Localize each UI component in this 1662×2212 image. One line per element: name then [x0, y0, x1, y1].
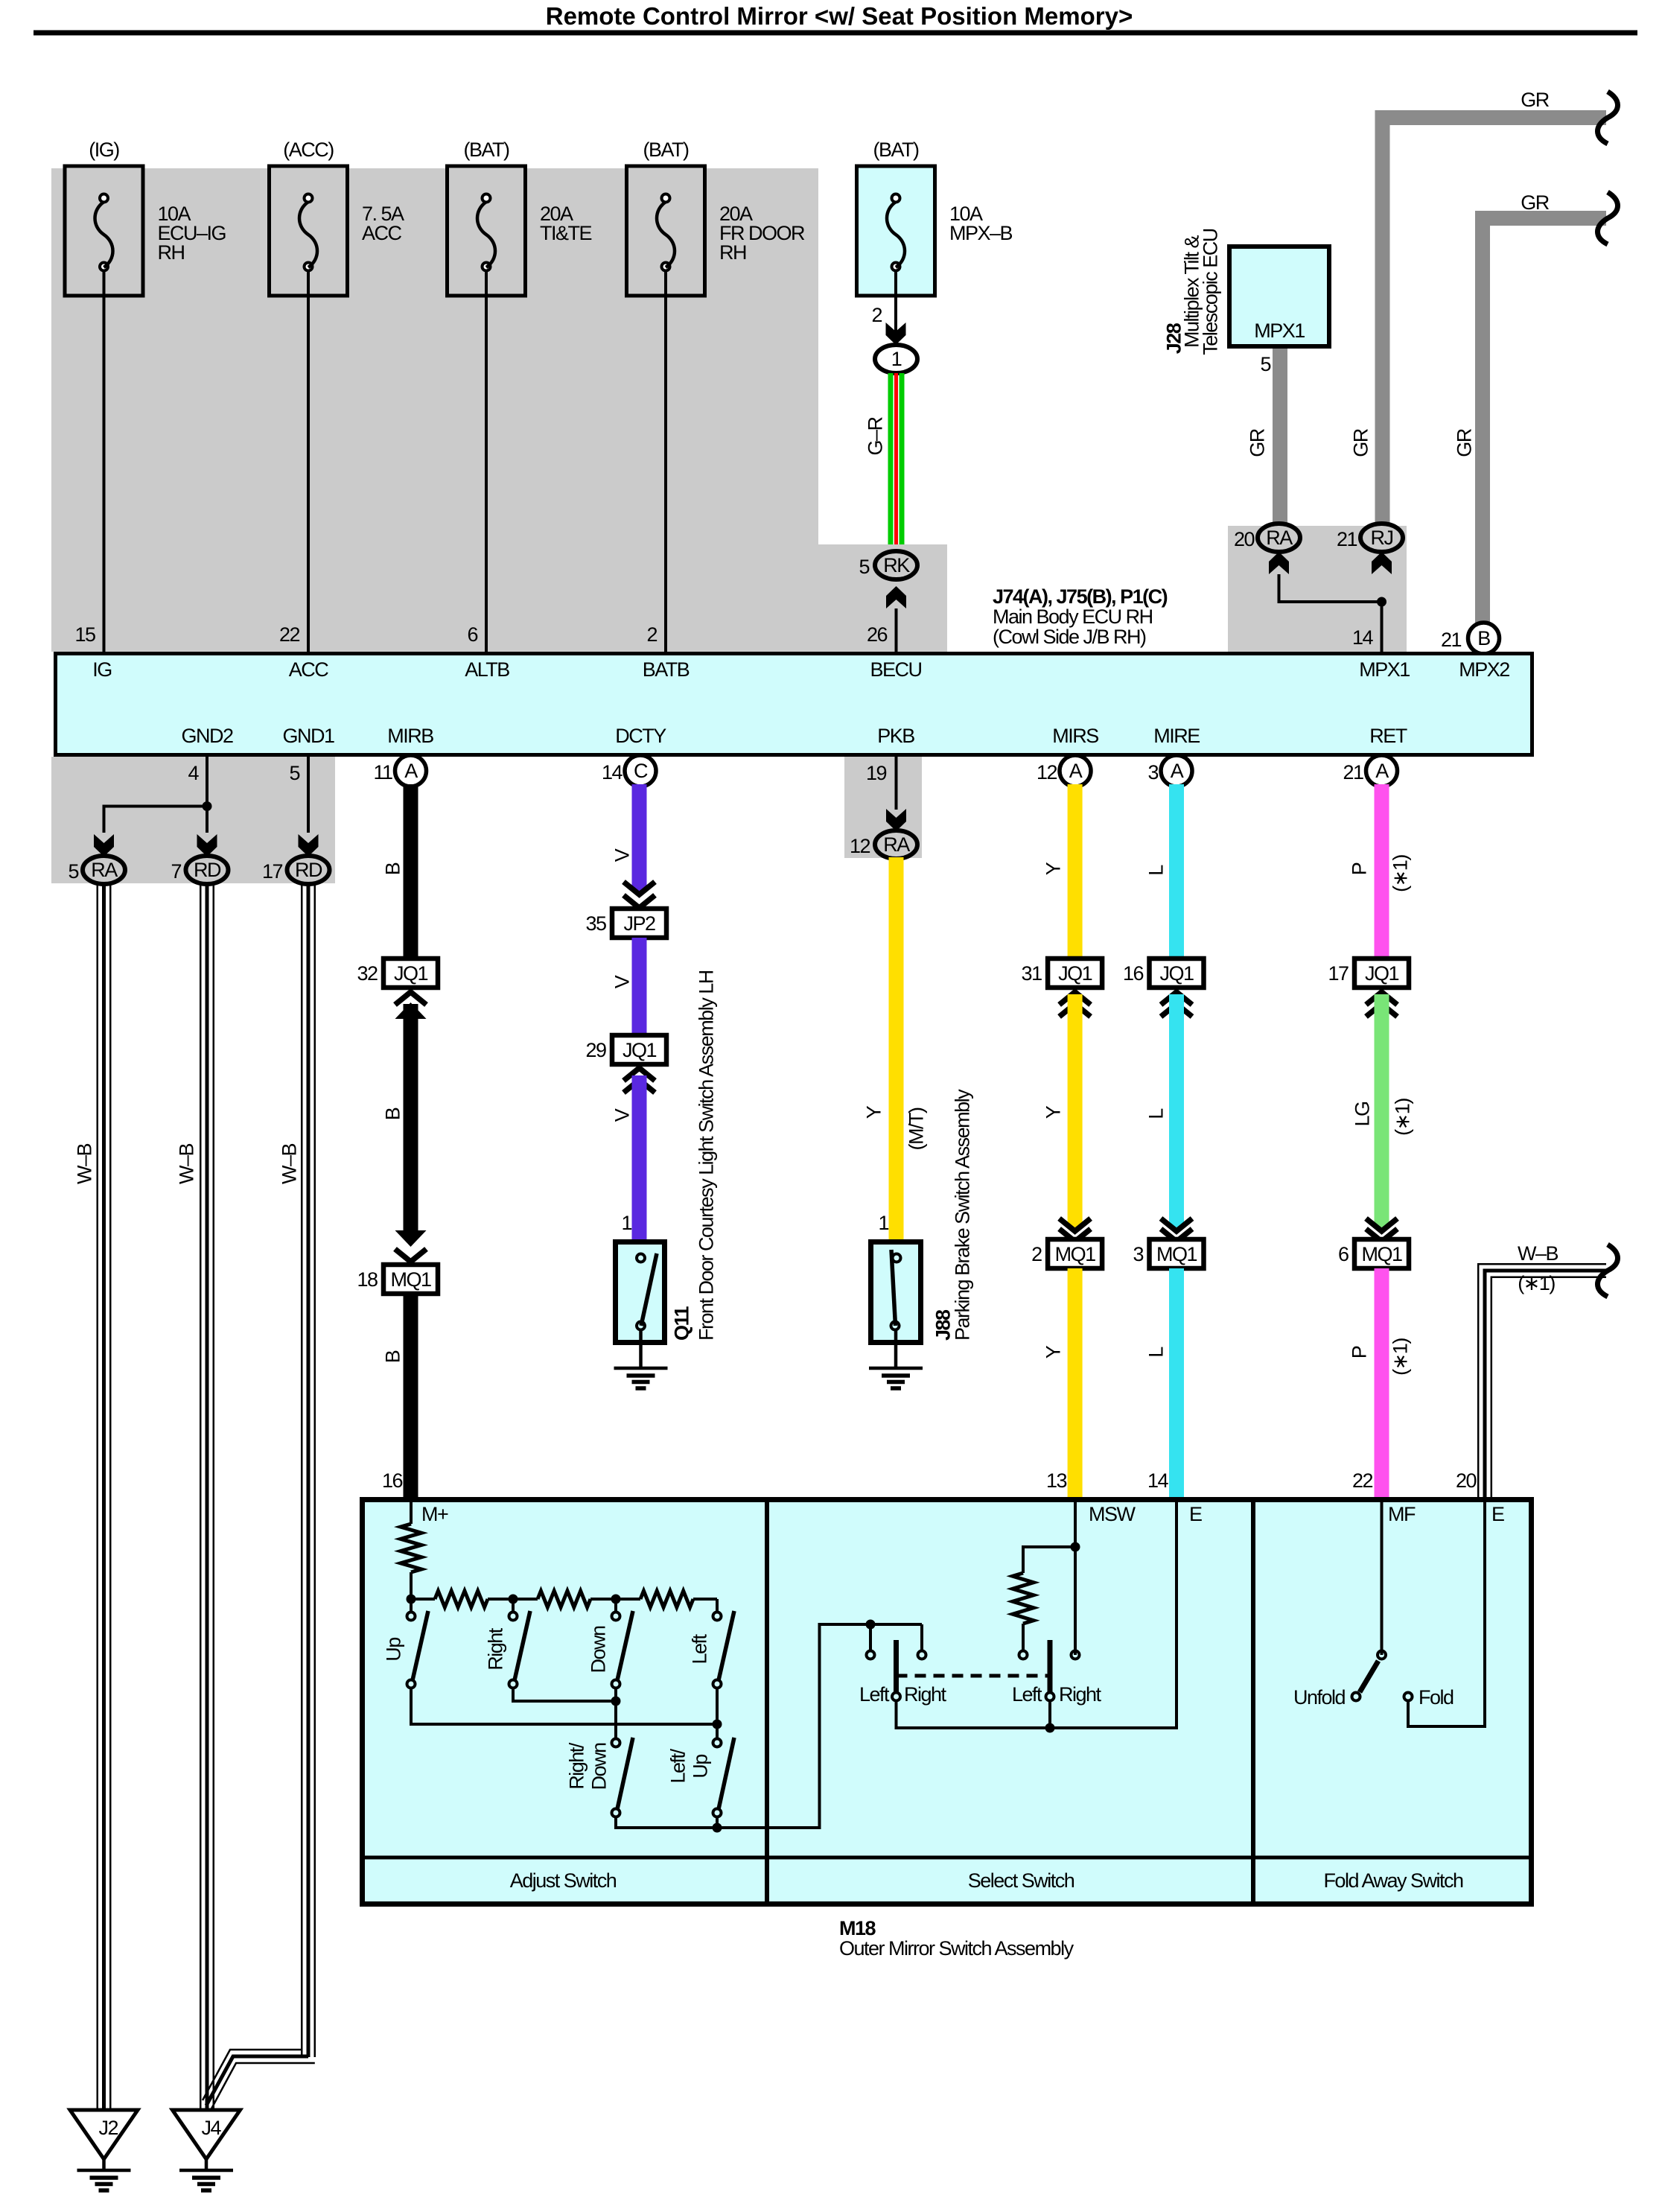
connector oval RA pin 20 — [1258, 524, 1300, 552]
svg-text:IG: IG — [92, 658, 112, 681]
svg-text:RET: RET — [1369, 725, 1407, 747]
svg-text:14: 14 — [1352, 626, 1374, 649]
gray block below ECU (GND area) — [51, 757, 335, 883]
svg-text:Front Door Courtesy Light Swit: Front Door Courtesy Light Switch Assembl… — [695, 970, 718, 1341]
svg-text:MQ1: MQ1 — [1156, 1243, 1197, 1265]
svg-text:5: 5 — [859, 556, 869, 578]
svg-text:21: 21 — [1343, 761, 1363, 784]
svg-text:MIRS: MIRS — [1052, 725, 1098, 747]
svg-text:Left: Left — [689, 1633, 711, 1664]
svg-text:16: 16 — [1123, 962, 1144, 985]
svg-text:RA: RA — [91, 859, 118, 881]
adjust switch Up — [410, 1599, 413, 1612]
gray block behind PKB connector — [844, 757, 922, 858]
junction block JQ1 pin 32 — [383, 959, 438, 988]
svg-text:M+: M+ — [421, 1503, 448, 1525]
svg-text:13: 13 — [1046, 1469, 1067, 1492]
wire B — [404, 1004, 418, 1230]
ground below J88 — [869, 1367, 923, 1370]
svg-text:JQ1: JQ1 — [1159, 962, 1194, 985]
svg-text:Remote Control Mirror <w/ Seat: Remote Control Mirror <w/ Seat Position … — [546, 2, 1133, 30]
svg-text:JQ1: JQ1 — [623, 1039, 657, 1061]
adjust switch Left/Up — [713, 1739, 722, 1747]
svg-text:V: V — [611, 848, 634, 862]
svg-text:(BAT): (BAT) — [643, 139, 689, 161]
svg-text:MPX2: MPX2 — [1459, 658, 1509, 681]
wire L — [1169, 994, 1184, 1227]
svg-text:P: P — [1349, 862, 1371, 875]
wire W-B to M18 pin 20 — [1478, 1264, 1606, 1498]
svg-text:GR: GR — [1350, 428, 1372, 457]
svg-text:A: A — [1069, 760, 1083, 782]
svg-text:RD: RD — [194, 859, 221, 881]
wire MPX-B fuse to connector 1 — [894, 296, 897, 345]
svg-text:Parking Brake Switch Assembly: Parking Brake Switch Assembly — [952, 1089, 974, 1341]
svg-text:JQ1: JQ1 — [394, 962, 428, 985]
select switch common to E pin 14 — [897, 1499, 1177, 1728]
svg-text:2: 2 — [1031, 1243, 1042, 1265]
svg-text:Y: Y — [1042, 862, 1065, 875]
svg-text:GR: GR — [1521, 191, 1550, 214]
svg-text:RH: RH — [158, 241, 185, 264]
svg-text:15: 15 — [74, 623, 95, 646]
svg-text:DCTY: DCTY — [615, 725, 666, 747]
svg-text:17: 17 — [262, 860, 283, 883]
svg-text:RJ: RJ — [1371, 527, 1393, 549]
svg-text:MPX1: MPX1 — [1254, 320, 1305, 342]
svg-text:11: 11 — [373, 761, 392, 784]
svg-text:TI&TE: TI&TE — [540, 222, 591, 244]
svg-text:GR: GR — [1246, 428, 1269, 457]
svg-text:3: 3 — [1147, 761, 1158, 784]
svg-text:P: P — [1349, 1346, 1371, 1358]
svg-text:Up: Up — [383, 1638, 405, 1662]
section divider 1 — [765, 1499, 769, 1904]
dashed mechanical link — [897, 1674, 1051, 1678]
wire Y — [1068, 784, 1083, 962]
wire W-B from RD(7) to J4 — [200, 883, 202, 2110]
svg-text:Left: Left — [859, 1683, 890, 1706]
svg-text:5: 5 — [1260, 353, 1270, 375]
fuse 20A (BAT) — [627, 139, 805, 296]
svg-text:RH: RH — [719, 241, 746, 264]
connector circle B pin 21 (MPX2) — [1468, 623, 1500, 654]
svg-text:Y: Y — [1042, 1105, 1065, 1119]
wire fuse to ECU pin 15 — [103, 296, 106, 652]
wire Y (yellow) to parking brake switch — [889, 857, 904, 1239]
svg-text:2: 2 — [871, 304, 882, 326]
svg-text:(BAT): (BAT) — [873, 139, 919, 161]
svg-text:Telescopic ECU: Telescopic ECU — [1200, 229, 1222, 355]
svg-text:1: 1 — [621, 1212, 631, 1234]
svg-text:LG: LG — [1351, 1102, 1374, 1126]
connector oval RD pin 17 — [287, 856, 330, 884]
svg-text:G–R: G–R — [865, 416, 887, 455]
wire P to M18 pin 22 — [1375, 1268, 1389, 1498]
wire fuse to ECU pin 22 — [307, 296, 310, 652]
wire fuse to ECU pin 6 — [485, 296, 488, 652]
wire W-B from RD(17), bends to join J4 wire — [301, 883, 303, 2057]
connector oval RA pin 12 (PKB) — [875, 830, 917, 859]
fuse 20A (BAT) — [448, 139, 592, 296]
svg-text:Select Switch: Select Switch — [968, 1869, 1074, 1892]
ECU J28 Multiplex Tilt & Telescopic ECU — [1229, 247, 1329, 346]
svg-text:MPX1: MPX1 — [1359, 658, 1410, 681]
wire V — [632, 938, 647, 1035]
svg-text:L: L — [1145, 865, 1168, 876]
svg-text:Left: Left — [1012, 1683, 1042, 1706]
svg-text:J2: J2 — [98, 2117, 118, 2139]
svg-text:7: 7 — [171, 860, 181, 883]
svg-text:Main Body ECU RH: Main Body ECU RH — [993, 606, 1153, 628]
svg-text:16: 16 — [382, 1469, 403, 1492]
svg-text:RK: RK — [883, 554, 910, 576]
connector circle A pin 21 (RET) — [1366, 755, 1398, 786]
svg-text:5: 5 — [68, 860, 78, 883]
svg-text:BATB: BATB — [643, 658, 690, 681]
junction block JP2 pin 35 — [612, 909, 666, 938]
wire W-B from RA to J2 — [97, 883, 99, 2110]
Main Body ECU box — [56, 654, 1532, 755]
wire B to M18 pin 16 — [404, 1294, 418, 1498]
svg-text:22: 22 — [279, 623, 300, 646]
svg-text:MQ1: MQ1 — [1361, 1243, 1401, 1265]
gray block behind RA/RJ connectors — [1228, 526, 1407, 652]
svg-text:Right: Right — [485, 1627, 507, 1671]
svg-text:(ACC): (ACC) — [283, 139, 334, 161]
svg-text:Y: Y — [863, 1105, 885, 1119]
wire GR from J28 pin 5 to RA — [1273, 349, 1287, 523]
connector oval RA pin 5 — [83, 856, 125, 884]
svg-text:MIRE: MIRE — [1153, 725, 1200, 747]
svg-text:MIRB: MIRB — [387, 725, 433, 747]
select switch pole blades — [894, 1640, 899, 1692]
svg-text:21: 21 — [1337, 528, 1357, 550]
svg-text:1: 1 — [891, 348, 902, 370]
svg-text:MPX–B: MPX–B — [949, 222, 1013, 244]
svg-text:18: 18 — [357, 1268, 378, 1291]
svg-text:4: 4 — [188, 762, 199, 784]
svg-text:A: A — [1171, 760, 1184, 782]
svg-text:17: 17 — [1328, 962, 1349, 985]
connector oval RK pin 5 — [875, 551, 917, 579]
svg-text:(∗1): (∗1) — [1389, 1338, 1412, 1376]
connector oval RJ pin 21 — [1360, 524, 1403, 552]
svg-text:29: 29 — [585, 1039, 606, 1061]
svg-text:26: 26 — [867, 623, 888, 646]
svg-text:B: B — [382, 1107, 404, 1120]
svg-text:L: L — [1145, 1108, 1168, 1119]
svg-text:W–B: W–B — [74, 1144, 96, 1185]
svg-text:(IG): (IG) — [89, 139, 119, 161]
svg-text:B: B — [382, 862, 404, 875]
svg-text:12: 12 — [850, 835, 870, 857]
arrow into RK from below — [886, 586, 906, 608]
svg-text:E: E — [1189, 1503, 1202, 1525]
svg-text:12: 12 — [1037, 761, 1057, 784]
svg-text:ACC: ACC — [289, 658, 329, 681]
adjust switch Left — [713, 1612, 722, 1621]
wire RA/RJ to ECU MPX1 pin 14 — [1279, 574, 1382, 652]
junction block MQ1 pin 3 — [1150, 1239, 1204, 1268]
ground below Q11 — [614, 1367, 668, 1370]
svg-text:B: B — [1477, 627, 1490, 649]
svg-text:19: 19 — [866, 762, 887, 784]
wire B (black) MIRB — [404, 784, 418, 962]
svg-text:A: A — [404, 760, 418, 782]
adjust switch Right — [512, 1599, 515, 1612]
svg-text:J74(A), J75(B), P1(C): J74(A), J75(B), P1(C) — [993, 585, 1168, 608]
wire Up bottom to Left column — [411, 1688, 717, 1724]
svg-text:BECU: BECU — [870, 658, 921, 681]
wire L to M18 pin 14 — [1169, 1268, 1184, 1498]
svg-text:V: V — [611, 975, 634, 988]
fold switch — [1378, 1651, 1386, 1659]
junction block MQ1 pin 2 — [1048, 1239, 1102, 1268]
svg-text:Q11: Q11 — [671, 1306, 693, 1341]
svg-text:21: 21 — [1441, 629, 1462, 651]
svg-text:3: 3 — [1133, 1243, 1143, 1265]
svg-text:Down: Down — [588, 1626, 610, 1674]
wire V — [632, 1075, 647, 1239]
gray junction-block background (cowl side J/B RH) — [51, 168, 818, 652]
wire GND1 pin 5 — [307, 757, 310, 833]
svg-text:Fold: Fold — [1419, 1686, 1454, 1709]
svg-text:MF: MF — [1388, 1503, 1416, 1525]
svg-text:Down: Down — [588, 1743, 611, 1790]
wire V (violet) — [632, 784, 647, 891]
svg-text:Y: Y — [1042, 1345, 1065, 1358]
connector circle A pin 12 (MIRS) — [1060, 755, 1091, 786]
svg-text:Right/: Right/ — [566, 1742, 588, 1790]
connector circle A pin 3 (MIRE) — [1161, 755, 1192, 786]
fuse 7. 5A (ACC) — [270, 139, 405, 296]
wire GND2 pin 4 — [206, 757, 208, 833]
junction block MQ1 pin 18 — [383, 1265, 438, 1294]
svg-text:(Cowl Side J/B RH): (Cowl Side J/B RH) — [993, 626, 1146, 648]
svg-text:E: E — [1491, 1503, 1504, 1525]
junction block JQ1 pin 31 — [1048, 959, 1102, 988]
connector circle A pin 11 (MIRB) — [395, 755, 427, 786]
connector circle C pin 14 (DCTY) — [625, 755, 656, 786]
wire G-R (green-red striped) — [888, 373, 894, 544]
svg-text:6: 6 — [1338, 1243, 1349, 1265]
junction block JQ1 pin 16 — [1150, 959, 1204, 988]
svg-text:RA: RA — [883, 833, 910, 856]
svg-text:RD: RD — [295, 859, 322, 881]
wire common of adjust switches to select section — [616, 1817, 717, 1828]
svg-text:32: 32 — [357, 962, 378, 985]
svg-text:(BAT): (BAT) — [464, 139, 509, 161]
wire Y — [1068, 994, 1083, 1227]
fuse 10A (BAT) — [857, 139, 1013, 296]
junction block JQ1 pin 17 — [1354, 959, 1409, 988]
svg-text:V: V — [611, 1108, 634, 1122]
svg-text:(∗1): (∗1) — [1392, 1099, 1414, 1136]
wire Right bottom to Down column — [513, 1688, 616, 1701]
svg-text:Right: Right — [904, 1683, 947, 1706]
svg-text:5: 5 — [289, 762, 299, 784]
fuse 10A (IG) — [65, 139, 226, 296]
svg-text:14: 14 — [602, 761, 623, 784]
svg-text:ALTB: ALTB — [465, 658, 509, 681]
svg-text:(M/T): (M/T) — [905, 1107, 928, 1150]
svg-text:GR: GR — [1454, 428, 1476, 457]
connector oval 1 — [875, 345, 917, 373]
svg-text:Outer Mirror Switch Assembly: Outer Mirror Switch Assembly — [839, 1937, 1074, 1960]
svg-text:(∗1): (∗1) — [1389, 855, 1412, 892]
svg-text:JQ1: JQ1 — [1365, 962, 1399, 985]
svg-text:2: 2 — [646, 623, 657, 646]
svg-text:J4: J4 — [201, 2117, 221, 2139]
svg-text:GR: GR — [1521, 89, 1550, 111]
svg-text:31: 31 — [1022, 962, 1042, 985]
wire LG (light green) — [1375, 994, 1389, 1227]
ground J2 — [70, 2110, 138, 2159]
svg-text:JP2: JP2 — [623, 912, 655, 935]
svg-text:1: 1 — [878, 1212, 888, 1234]
wire PKB pin 19 — [895, 757, 898, 810]
wire P (pink) — [1375, 784, 1389, 962]
svg-text:MSW: MSW — [1089, 1503, 1136, 1525]
section divider 2 — [1251, 1499, 1255, 1904]
junction block MQ1 pin 6 — [1354, 1239, 1409, 1268]
wire Fold terminal to E pin 20 — [1408, 1499, 1485, 1726]
select switch pole terminals — [866, 1620, 876, 1630]
svg-text:Right: Right — [1059, 1683, 1102, 1706]
svg-text:C: C — [634, 760, 648, 782]
svg-text:Adjust Switch: Adjust Switch — [510, 1869, 617, 1892]
wire GR to B connector (MPX2) — [1483, 218, 1606, 624]
svg-text:RA: RA — [1266, 527, 1293, 549]
wire fuse to ECU pin 2 — [664, 296, 667, 652]
svg-text:GND2: GND2 — [181, 725, 232, 747]
svg-text:A: A — [1375, 760, 1389, 782]
connector oval RD pin 7 — [186, 856, 229, 884]
adjust switch Right/Down — [612, 1739, 620, 1747]
svg-text:ACC: ACC — [362, 222, 402, 244]
ground J4 — [173, 2110, 241, 2159]
svg-text:W–B: W–B — [1518, 1242, 1558, 1265]
svg-text:PKB: PKB — [877, 725, 914, 747]
svg-text:20: 20 — [1456, 1469, 1477, 1492]
resistor chain — [411, 1598, 435, 1601]
junction block JQ1 pin 29 — [612, 1035, 666, 1064]
svg-text:L: L — [1145, 1347, 1168, 1358]
adjust switch Down — [614, 1599, 617, 1612]
M18 Outer Mirror Switch Assembly box — [363, 1500, 1532, 1904]
svg-text:W–B: W–B — [176, 1144, 198, 1185]
svg-text:35: 35 — [585, 912, 606, 935]
svg-text:JQ1: JQ1 — [1058, 962, 1092, 985]
svg-text:14: 14 — [1147, 1469, 1169, 1492]
wire Y to M18 pin 13 — [1068, 1268, 1083, 1498]
svg-text:Up: Up — [690, 1755, 712, 1779]
wire GR to RJ (pin 21) — [1383, 118, 1607, 523]
svg-text:Left/: Left/ — [667, 1748, 690, 1783]
svg-text:GND1: GND1 — [282, 725, 334, 747]
svg-text:MQ1: MQ1 — [1055, 1243, 1095, 1265]
svg-text:(∗1): (∗1) — [1518, 1272, 1555, 1294]
wire L (light blue) — [1169, 784, 1184, 962]
svg-text:6: 6 — [467, 623, 477, 646]
svg-text:B: B — [382, 1350, 404, 1363]
svg-text:22: 22 — [1352, 1469, 1373, 1492]
section separator — [362, 1856, 1532, 1860]
svg-text:Unfold: Unfold — [1293, 1686, 1346, 1709]
svg-text:MQ1: MQ1 — [390, 1268, 430, 1291]
svg-text:20: 20 — [1234, 528, 1255, 550]
svg-text:W–B: W–B — [278, 1144, 301, 1185]
svg-text:Fold Away Switch: Fold Away Switch — [1323, 1869, 1463, 1892]
svg-text:M18: M18 — [839, 1917, 876, 1939]
